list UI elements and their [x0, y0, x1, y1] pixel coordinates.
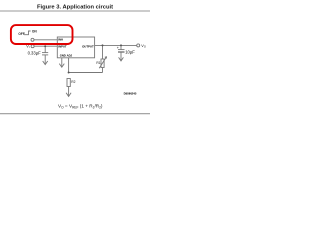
svg-text:10µF: 10µF [125, 50, 135, 55]
svg-text:OFF: OFF [18, 32, 24, 36]
svg-text:VO = VREF (1 + R1/R2): VO = VREF (1 + R1/R2) [58, 104, 103, 110]
svg-text:GND: GND [60, 54, 66, 58]
svg-text:OUTPUT: OUTPUT [82, 45, 94, 49]
svg-text:D95IN245: D95IN245 [124, 92, 137, 96]
svg-text:ADJ: ADJ [67, 54, 73, 58]
svg-text:R1: R1 [96, 61, 100, 65]
svg-text:INPUT: INPUT [58, 45, 67, 49]
svg-text:Figure 3. Application circuit: Figure 3. Application circuit [37, 4, 113, 10]
svg-text:R2: R2 [71, 80, 75, 84]
svg-text:ON: ON [32, 29, 37, 33]
svg-text:INH: INH [58, 37, 63, 41]
svg-text:VO: VO [141, 44, 146, 49]
svg-text:0.33µF: 0.33µF [28, 51, 42, 56]
svg-text:VI: VI [26, 44, 30, 49]
